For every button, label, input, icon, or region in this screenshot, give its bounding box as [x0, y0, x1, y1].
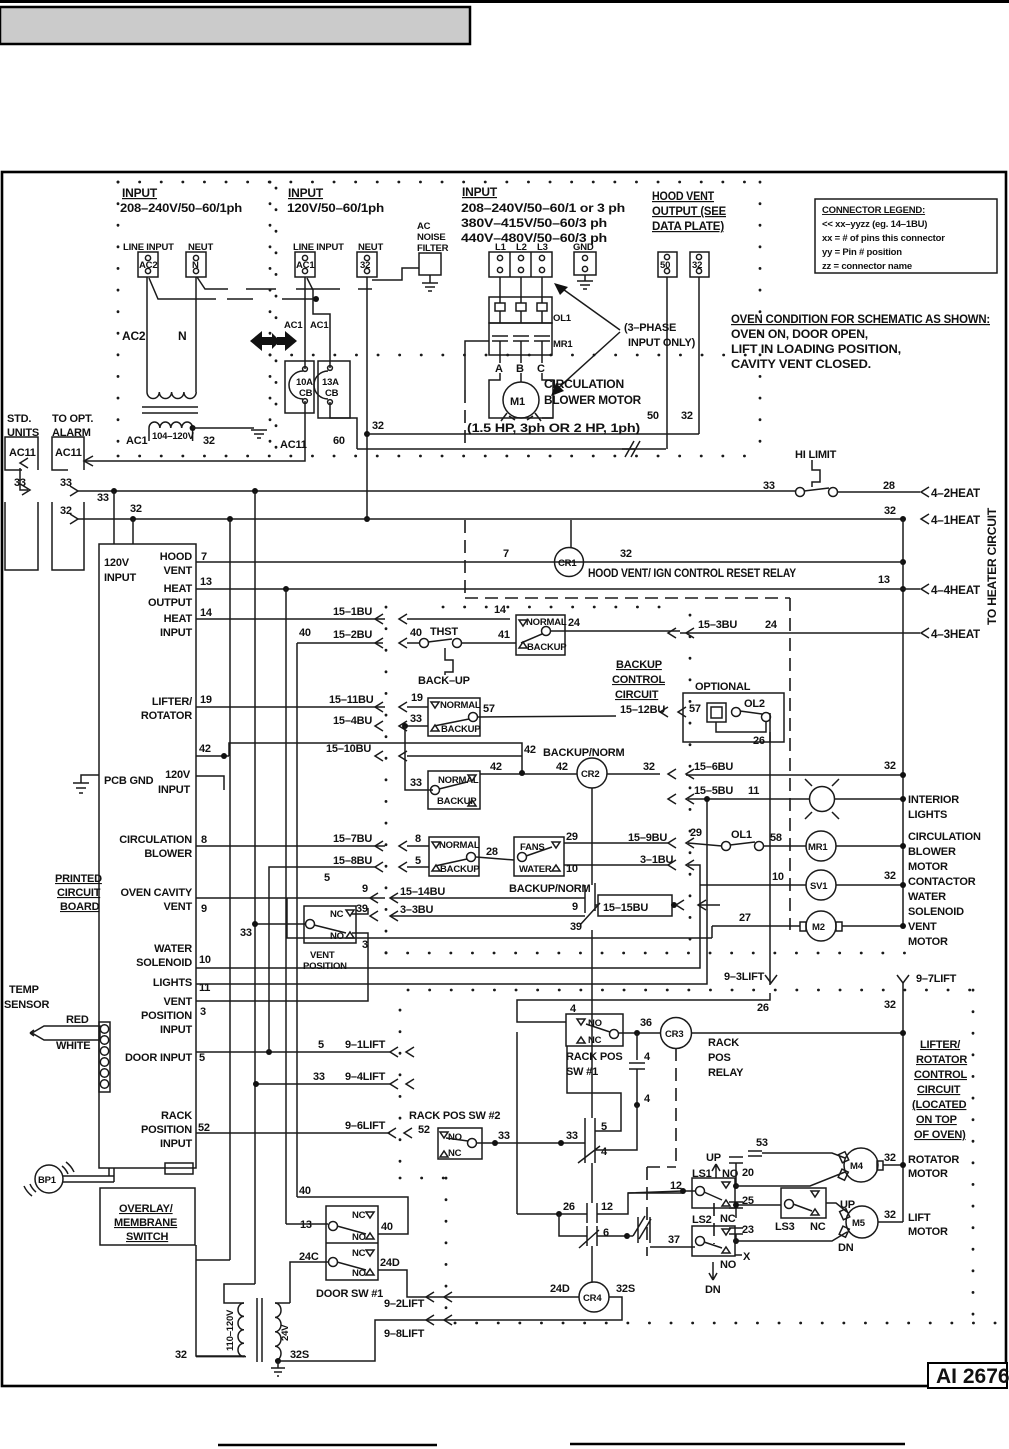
wire 25 to LS3 [736, 1204, 781, 1206]
svg-text:NORMAL: NORMAL [439, 840, 480, 851]
wire 24 out [551, 630, 680, 632]
relay CR4 [579, 1282, 609, 1312]
svg-text:MOTOR: MOTOR [908, 861, 948, 873]
svg-text:VENT: VENT [310, 950, 335, 961]
wire 57 out [478, 716, 616, 717]
svg-text:39: 39 [356, 903, 368, 915]
svg-text:DOOR SW #1: DOOR SW #1 [316, 1288, 383, 1300]
temp sensor probe [32, 1026, 100, 1040]
wire AC2 slant to AC1 dash line [149, 278, 216, 299]
wire 27 long [287, 898, 712, 938]
CR2 stem down [591, 788, 593, 885]
dash segment AC1 line [227, 298, 253, 300]
wire 40 row [297, 642, 383, 644]
svg-text:4–4HEAT: 4–4HEAT [931, 583, 981, 597]
svg-text:SV1: SV1 [810, 881, 828, 892]
dotted col x690 [689, 615, 692, 953]
wire 9 [196, 897, 385, 899]
switch FANS/WATER [514, 837, 564, 876]
svg-text:120V/50–60/1ph: 120V/50–60/1ph [287, 201, 384, 215]
svg-text:BACKUP: BACKUP [440, 864, 480, 875]
svg-text:BACKUP/NORM: BACKUP/NORM [543, 747, 625, 759]
terminal AC2 [138, 252, 158, 277]
svg-text:32: 32 [372, 420, 384, 432]
svg-text:24C: 24C [299, 1251, 319, 1263]
bus 32 y519 [78, 518, 903, 520]
node 32S [275, 1358, 281, 1364]
svg-text:RACK POS: RACK POS [566, 1051, 622, 1063]
wire N drop [195, 277, 197, 392]
svg-text:BACKUP: BACKUP [441, 724, 481, 735]
wire AC2 drop [146, 277, 148, 392]
svg-text:5: 5 [199, 1052, 205, 1064]
svg-text:OPTIONAL: OPTIONAL [695, 681, 751, 693]
wire 42 vert [229, 743, 522, 773]
svg-text:42: 42 [524, 744, 536, 756]
wire 3 [196, 937, 368, 1001]
wire to 15-15BU [595, 904, 598, 906]
svg-text:THST: THST [430, 626, 458, 638]
svg-text:15–12BU: 15–12BU [620, 704, 665, 716]
svg-text:MEMBRANE: MEMBRANE [114, 1217, 177, 1229]
svg-text:LS3: LS3 [775, 1221, 795, 1233]
svg-text:NC: NC [352, 1248, 366, 1259]
arrow 4-3HEAT [921, 628, 929, 638]
relay CR2 [577, 758, 607, 788]
node 32 a [130, 516, 136, 522]
OPTIONAL box [683, 693, 784, 742]
svg-text:(1.5 HP, 3ph OR 2 HP, 1ph): (1.5 HP, 3ph OR 2 HP, 1ph) [467, 421, 640, 435]
wire M5 out [878, 1221, 903, 1223]
svg-text:SENSOR: SENSOR [4, 999, 50, 1011]
svg-text:CR1: CR1 [558, 558, 577, 569]
svg-text:9–2LIFT: 9–2LIFT [384, 1298, 425, 1310]
svg-text:15–8BU: 15–8BU [333, 855, 372, 867]
svg-text:OL1: OL1 [553, 313, 572, 324]
svg-text:DN: DN [838, 1242, 854, 1254]
svg-text:TO HEATER CIRCUIT: TO HEATER CIRCUIT [985, 507, 999, 625]
svg-text:NC: NC [448, 1148, 462, 1159]
svg-text:33: 33 [97, 492, 109, 504]
svg-text:SWITCH: SWITCH [126, 1231, 168, 1243]
svg-text:OUTPUT (SEE: OUTPUT (SEE [652, 204, 726, 218]
svg-text:32: 32 [681, 410, 693, 422]
svg-text:42: 42 [556, 761, 568, 773]
wire 13 to 4-4HEAT [903, 588, 920, 590]
label box 15-15BU [598, 895, 672, 916]
grey header bar [0, 7, 470, 44]
svg-text:57: 57 [483, 703, 495, 715]
svg-text:NO: NO [448, 1132, 462, 1143]
svg-text:SW #1: SW #1 [566, 1066, 598, 1078]
T2 sec leads [275, 1302, 290, 1304]
svg-text:INPUT: INPUT [158, 784, 190, 796]
transformer T1 primary [147, 392, 196, 399]
svg-text:33: 33 [410, 713, 422, 725]
svg-text:B: B [516, 363, 524, 375]
svg-text:TO OPT.: TO OPT. [52, 413, 93, 425]
svg-text:DN: DN [705, 1284, 721, 1296]
svg-text:LIGHTS: LIGHTS [153, 977, 192, 989]
terminal AC1 [295, 252, 315, 277]
wire 13A CB to 60 line [330, 402, 357, 449]
svg-text:SOLENOID: SOLENOID [136, 957, 192, 969]
ground PCB [73, 775, 99, 793]
dotted border mid col a [269, 182, 272, 456]
svg-text:zz = connector name: zz = connector name [822, 261, 912, 272]
wire 12 upper [628, 1191, 695, 1193]
svg-text:13A: 13A [322, 377, 339, 388]
bottom page line 1 [218, 1444, 437, 1446]
svg-text:HI LIMIT: HI LIMIT [795, 449, 837, 461]
wire 33 trunk x255 [254, 491, 256, 1284]
wire 33 link down [405, 726, 433, 790]
cap 25 [729, 1202, 743, 1218]
wire NEUT32 drop [366, 277, 368, 519]
wire primary bottom to 32 [196, 1356, 244, 1358]
cap 20 [729, 1157, 743, 1186]
dashed col x790 [789, 598, 791, 930]
MR1 contacts [492, 336, 508, 355]
dotted row y953 [386, 952, 905, 955]
svg-text:X: X [743, 1251, 751, 1263]
svg-text:50: 50 [647, 410, 659, 422]
relay CR3 [661, 1018, 692, 1049]
svg-text:9: 9 [201, 903, 207, 915]
wire 23 to M5 [736, 1232, 847, 1241]
wire vent 33 [255, 923, 305, 925]
svg-text:53: 53 [756, 1137, 768, 1149]
svg-text:52: 52 [418, 1124, 430, 1136]
wire 42 to CR2 [480, 773, 577, 775]
svg-text:LIFT: LIFT [908, 1212, 931, 1224]
CR4 stem [591, 1246, 593, 1282]
svg-text:VENT: VENT [163, 996, 192, 1008]
wire 6 [559, 1214, 587, 1236]
BP1 wires [63, 1168, 114, 1182]
dotted col x386 [385, 607, 388, 953]
svg-text:40: 40 [410, 627, 422, 639]
wire 13 to door [286, 1223, 328, 1225]
wire 19 [196, 706, 385, 708]
svg-text:OVEN CONDITION FOR SCHEMATIC A: OVEN CONDITION FOR SCHEMATIC AS SHOWN: [731, 312, 990, 326]
wire lamp to bus [834, 798, 903, 800]
arrow to M1 [556, 332, 620, 390]
svg-text:RED: RED [66, 1014, 89, 1026]
switch rack pos sw2 [438, 1128, 482, 1159]
overlay box [100, 1188, 195, 1245]
contact 26/12 [587, 1203, 597, 1223]
svg-text:OL2: OL2 [744, 698, 765, 710]
svg-text:9–8LIFT: 9–8LIFT [384, 1328, 425, 1340]
svg-text:AC2: AC2 [139, 260, 157, 271]
arrow 9-3LIFT down [765, 975, 777, 983]
svg-text:LIFTER/: LIFTER/ [152, 696, 192, 708]
wire 37 [627, 1235, 633, 1237]
svg-text:5: 5 [324, 872, 330, 884]
svg-text:A: A [495, 363, 503, 375]
contact 4 slash [578, 1143, 600, 1163]
svg-text:24V: 24V [280, 1324, 291, 1341]
wire 53 to M4 [754, 1150, 756, 1152]
svg-text:120V: 120V [104, 557, 130, 569]
svg-text:9–7LIFT: 9–7LIFT [916, 973, 957, 985]
svg-text:5: 5 [415, 855, 421, 867]
svg-text:MOTOR: MOTOR [908, 936, 948, 948]
dotted border left col [117, 182, 120, 456]
breaker 13A CB [314, 371, 328, 399]
cap 23 [729, 1228, 743, 1241]
svg-text:15–14BU: 15–14BU [400, 886, 445, 898]
svg-text:41: 41 [498, 629, 510, 641]
svg-text:INPUT: INPUT [160, 1024, 192, 1036]
svg-text:58: 58 [770, 832, 782, 844]
transformer T1 secondary 104-120V [149, 422, 193, 428]
arrow 4-2HEAT [921, 487, 929, 497]
wire 52 [196, 1132, 390, 1134]
svg-text:WATER: WATER [519, 864, 552, 875]
node 4-1 [900, 516, 906, 522]
wire 60 run [357, 448, 666, 450]
svg-text:36: 36 [640, 1017, 652, 1029]
svg-text:39: 39 [570, 921, 582, 933]
svg-text:yy = Pin # position: yy = Pin # position [822, 247, 902, 258]
svg-text:AC11: AC11 [280, 439, 307, 451]
svg-text:CIRCUIT: CIRCUIT [917, 1084, 961, 1096]
CB box 10A [285, 361, 314, 413]
wire 42 [196, 755, 229, 757]
svg-text:19: 19 [411, 692, 423, 704]
svg-text:14: 14 [494, 604, 507, 616]
contact 9/39 backup-norm [580, 883, 600, 925]
node 33 a [111, 488, 117, 494]
svg-text:RACK: RACK [708, 1037, 739, 1049]
svg-text:OUTPUT: OUTPUT [148, 597, 193, 609]
svg-text:M1: M1 [510, 396, 525, 408]
OL2 loop [716, 722, 766, 732]
contact slash on 60 wire [622, 441, 640, 457]
wire 41 [461, 642, 516, 644]
arrow 4-4HEAT [921, 584, 929, 594]
svg-text:INPUT: INPUT [462, 185, 498, 199]
svg-text:15–4BU: 15–4BU [333, 715, 372, 727]
svg-text:INPUT: INPUT [288, 186, 324, 200]
contact 37 double [633, 1216, 651, 1243]
svg-text:20: 20 [742, 1167, 754, 1179]
motor M2 [806, 911, 836, 941]
arrow pair 15-12BU [660, 707, 686, 717]
svg-text:10: 10 [566, 863, 578, 875]
wire CR2 col contact to CR4 [591, 930, 593, 1118]
door switch box [326, 1206, 378, 1280]
wire 32 to ground [192, 427, 254, 429]
noise filter ground [422, 275, 438, 291]
arrow into ALARM AC11 [84, 456, 93, 466]
svg-text:RACK POS SW #2: RACK POS SW #2 [409, 1110, 500, 1122]
svg-text:STD.: STD. [7, 413, 31, 425]
node 13 join [900, 586, 906, 592]
svg-text:BLOWER: BLOWER [908, 846, 956, 858]
svg-text:28: 28 [883, 480, 895, 492]
T2 core [256, 1298, 258, 1362]
svg-text:60: 60 [333, 435, 345, 447]
svg-text:OF OVEN): OF OVEN) [914, 1129, 966, 1141]
limit switch LS3 [781, 1188, 826, 1218]
wire vent NO out 3 [352, 933, 368, 937]
svg-text:MR1: MR1 [808, 842, 828, 853]
bus 33 y491 [78, 490, 795, 492]
svg-text:MOTOR: MOTOR [908, 1168, 948, 1180]
dotted row y607 [443, 606, 680, 609]
wire vent NC out 39 [352, 908, 368, 914]
node 32/434 [364, 431, 370, 437]
wire 5 door [196, 1051, 390, 1053]
wire 26 loop [517, 993, 770, 1022]
svg-text:15–6BU: 15–6BU [694, 761, 733, 773]
svg-text:AC1: AC1 [284, 320, 303, 331]
node T1 sec dot [190, 425, 196, 431]
svg-text:37: 37 [668, 1234, 680, 1246]
svg-text:15–2BU: 15–2BU [333, 629, 372, 641]
wire 26-12 [517, 1213, 587, 1215]
svg-text:110–120V: 110–120V [225, 1309, 236, 1351]
svg-text:POSITION: POSITION [141, 1010, 192, 1022]
wire 50 drop [666, 277, 668, 449]
connector 32b [690, 252, 709, 277]
svg-text:NC: NC [330, 909, 344, 920]
wire 5 loop [567, 1046, 621, 1131]
svg-text:RACK: RACK [161, 1110, 192, 1122]
motor M1 [503, 382, 539, 418]
wire 24 to 4-3HEAT [680, 632, 920, 634]
svg-text:M4: M4 [850, 1161, 864, 1172]
svg-text:VENT: VENT [163, 565, 192, 577]
svg-text:24D: 24D [550, 1283, 570, 1295]
svg-text:POSITION: POSITION [141, 1124, 192, 1136]
svg-text:15–11BU: 15–11BU [329, 694, 374, 706]
svg-text:CIRCUIT: CIRCUIT [57, 887, 101, 899]
svg-text:BACKUP/NORM: BACKUP/NORM [509, 883, 591, 895]
svg-text:M2: M2 [812, 922, 825, 933]
svg-text:CONTROL: CONTROL [914, 1069, 967, 1081]
svg-text:15–1BU: 15–1BU [333, 606, 372, 618]
svg-text:BACK–UP: BACK–UP [418, 675, 470, 687]
wire 24D [378, 1270, 446, 1297]
wire 32 trunk x230 [229, 519, 231, 1260]
svg-text:8: 8 [415, 833, 421, 845]
terminal 32 [357, 252, 377, 277]
svg-text:12: 12 [670, 1180, 682, 1192]
svg-text:NOISE: NOISE [417, 232, 446, 243]
svg-text:32: 32 [130, 503, 142, 515]
wire 26 drop x773 [769, 713, 771, 742]
wire SV1 row [700, 884, 806, 886]
contactor MR1 coil [806, 831, 836, 861]
arrow pair 15-2BU [375, 638, 407, 648]
wire 5 drop x269 [269, 867, 375, 1052]
svg-text:CR3: CR3 [665, 1029, 683, 1040]
svg-text:N: N [192, 260, 199, 271]
wire M4 out [883, 1164, 903, 1166]
svg-text:<< xx–yyzz (eg. 14–1BU): << xx–yyzz (eg. 14–1BU) [822, 219, 927, 230]
wire AC1 jog to 13A CB [307, 278, 330, 368]
limit switch LS2 [692, 1226, 735, 1256]
svg-text:9–3LIFT: 9–3LIFT [724, 971, 765, 983]
svg-text:CAVITY VENT CLOSED.: CAVITY VENT CLOSED. [731, 357, 871, 371]
wire 40-THST [407, 642, 419, 644]
wire AC1 drop to 10A CB [304, 277, 306, 369]
svg-text:CIRCULATION: CIRCULATION [119, 834, 192, 846]
svg-text:VENT: VENT [908, 921, 937, 933]
svg-text:42: 42 [199, 743, 211, 755]
wire 32b drop [698, 277, 700, 434]
dotted border top row [118, 181, 760, 184]
wire 28 to 4-2HEAT [838, 491, 920, 493]
relay CR1 [555, 548, 584, 577]
svg-text:23: 23 [742, 1224, 754, 1236]
dashed LS1-LS2 link [713, 1203, 715, 1244]
svg-text:BP1: BP1 [38, 1175, 57, 1186]
svg-text:NC: NC [588, 1035, 602, 1046]
node 32/519 [364, 516, 370, 522]
wire 24C [290, 1262, 328, 1303]
wires L1L2L3 to OL1 [499, 277, 501, 297]
svg-text:15–10BU: 15–10BU [326, 743, 371, 755]
svg-text:ROTATOR: ROTATOR [141, 710, 192, 722]
svg-text:33: 33 [60, 477, 72, 489]
wire 8 [196, 845, 385, 847]
dashed border row y598 [465, 597, 790, 599]
wire 14 [196, 618, 385, 620]
svg-text:27: 27 [739, 912, 751, 924]
hook arrow std AC11 [20, 458, 28, 468]
svg-text:7: 7 [503, 548, 509, 560]
svg-text:PRINTED: PRINTED [55, 873, 102, 885]
buzzer BP1 [35, 1165, 63, 1193]
switch NORMAL/BACKUP 4 [429, 837, 479, 876]
arrow pair 15-1BU [375, 614, 407, 624]
svg-text:13: 13 [300, 1219, 312, 1231]
svg-text:3: 3 [362, 939, 368, 951]
svg-text:6: 6 [603, 1227, 609, 1239]
svg-text:9: 9 [572, 901, 578, 913]
arrow 9-7LIFT down [897, 975, 909, 983]
svg-text:WATER: WATER [154, 943, 192, 955]
svg-text:ON TOP: ON TOP [916, 1114, 957, 1126]
svg-text:32: 32 [884, 999, 896, 1011]
top rule [0, 0, 1009, 3]
svg-text:15–5BU: 15–5BU [694, 785, 733, 797]
svg-text:32: 32 [643, 761, 655, 773]
node 42 a [221, 753, 227, 759]
svg-text:OVEN CAVITY: OVEN CAVITY [120, 887, 192, 899]
wire 9-2LIFT to CR4 [446, 1296, 579, 1298]
svg-text:208–240V/50–60/1 or 3 ph: 208–240V/50–60/1 or 3 ph [461, 201, 625, 215]
svg-text:NC: NC [810, 1221, 826, 1233]
svg-text:28: 28 [486, 846, 498, 858]
PCB box [99, 544, 196, 1168]
svg-text:ROTATOR: ROTATOR [916, 1054, 967, 1066]
wire 40 drop x297 [296, 643, 298, 1197]
svg-text:AC2: AC2 [122, 329, 146, 343]
svg-text:MOTOR: MOTOR [908, 1226, 948, 1238]
row 10 / water [564, 864, 668, 866]
wire 33 to T2 [224, 1284, 255, 1303]
svg-text:5: 5 [318, 1039, 324, 1051]
contact 5 [585, 1118, 595, 1143]
svg-text:33: 33 [498, 1130, 510, 1142]
wire 4 loop [595, 1105, 637, 1150]
